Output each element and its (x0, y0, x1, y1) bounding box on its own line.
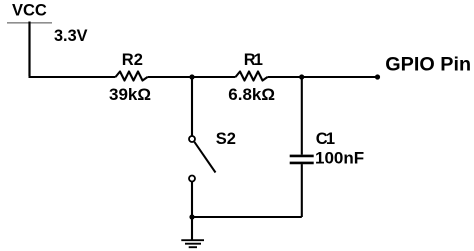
svg-text:3.3V: 3.3V (54, 27, 88, 45)
wire main rail: VCC corner to R2 (29, 76, 116, 78)
capacitor C1 (290, 156, 314, 163)
power VCC bar (7, 22, 52, 24)
switch S2 (189, 136, 216, 182)
wire capacitor C1 to bottom rail (301, 164, 303, 217)
node junction S2/C1/ground (189, 214, 194, 219)
node junction R2/R1/S2 (189, 74, 194, 79)
resistor R1 (236, 72, 268, 81)
wire bottom horizontal S2 to C1 (192, 216, 302, 218)
svg-text:100nF: 100nF (315, 149, 364, 168)
wire R1 to GPIO pin (268, 76, 378, 78)
svg-text:VCC: VCC (12, 2, 47, 20)
resistor R2 (116, 72, 148, 81)
wire R2 to R1 (148, 76, 236, 78)
svg-text:39kΩ: 39kΩ (109, 85, 151, 104)
svg-text:6.8kΩ: 6.8kΩ (228, 85, 275, 104)
ground (181, 240, 204, 247)
wire switch bottom to ground rail (191, 182, 193, 240)
svg-text:GPIO Pin: GPIO Pin (385, 54, 471, 76)
wire VCC vertical stub (28, 22, 30, 77)
svg-text:S2: S2 (216, 130, 236, 148)
svg-text:C1: C1 (316, 130, 335, 148)
svg-text:R2: R2 (122, 51, 143, 69)
wire junction to switch S2 (191, 77, 193, 136)
wire junction to capacitor C1 (301, 77, 303, 155)
node junction R1/C1/GPIO (299, 74, 304, 79)
node GPIO terminal (375, 74, 380, 79)
svg-text:R1: R1 (244, 51, 263, 69)
